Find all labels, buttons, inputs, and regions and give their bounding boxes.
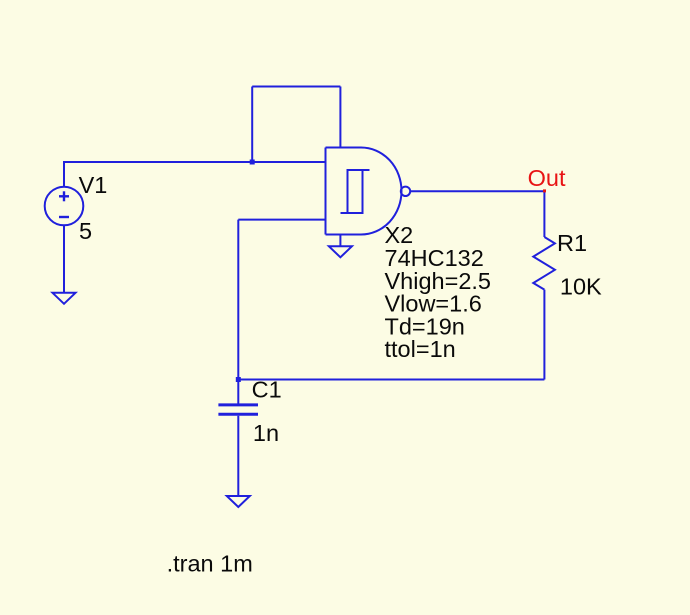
wire: gate output to Out node [410, 190, 544, 192]
svg-text:.tran 1m: .tran 1m [167, 551, 253, 577]
svg-text:C1: C1 [252, 376, 282, 402]
svg-text:Out: Out [528, 165, 566, 191]
voltage source V1 [45, 187, 84, 226]
wire: feedback loop top horizontal [252, 86, 340, 88]
ground under gate [329, 246, 352, 257]
wire: capacitor top lead [237, 380, 239, 404]
net label anchor dot (red) [543, 189, 546, 192]
wire: horizontal input net to gate input A [63, 161, 326, 163]
wire: left vertical down to capacitor node [237, 220, 239, 380]
output inversion bubble [401, 187, 410, 196]
svg-text:5: 5 [79, 218, 92, 244]
wire: capacitor bottom lead to ground [237, 416, 239, 496]
wire: resistor bottom to bottom net [543, 290, 545, 380]
wire: bottom horizontal from capacitor node to resistor bottom [238, 379, 544, 381]
node junction at capacitor [236, 377, 241, 382]
svg-text:V1: V1 [79, 172, 108, 198]
wire: V1 top to input net [63, 162, 65, 188]
wire: gate bottom pin to ground [339, 235, 341, 247]
wire: gate input B horizontal [238, 219, 326, 221]
schmitt hysteresis symbol inside gate [341, 170, 370, 213]
svg-text:1n: 1n [253, 420, 279, 446]
ground under C1 [227, 496, 250, 507]
ground under V1 [53, 293, 76, 304]
wire: feedback loop left vertical [251, 87, 253, 163]
svg-text:R1: R1 [557, 230, 587, 256]
wire: feedback loop right vertical into gate top pin [339, 87, 341, 149]
node junction on input net [250, 160, 255, 165]
op-amp style schmitt NAND gate X2 body [326, 148, 402, 235]
svg-text:10K: 10K [560, 274, 602, 300]
svg-text:ttol=1n: ttol=1n [385, 336, 456, 362]
wire: V1 bottom to ground [63, 225, 65, 292]
resistor R1 zigzag [533, 237, 555, 290]
capacitor C1 plates [218, 405, 258, 414]
wire: Out node down to resistor top [543, 191, 545, 237]
